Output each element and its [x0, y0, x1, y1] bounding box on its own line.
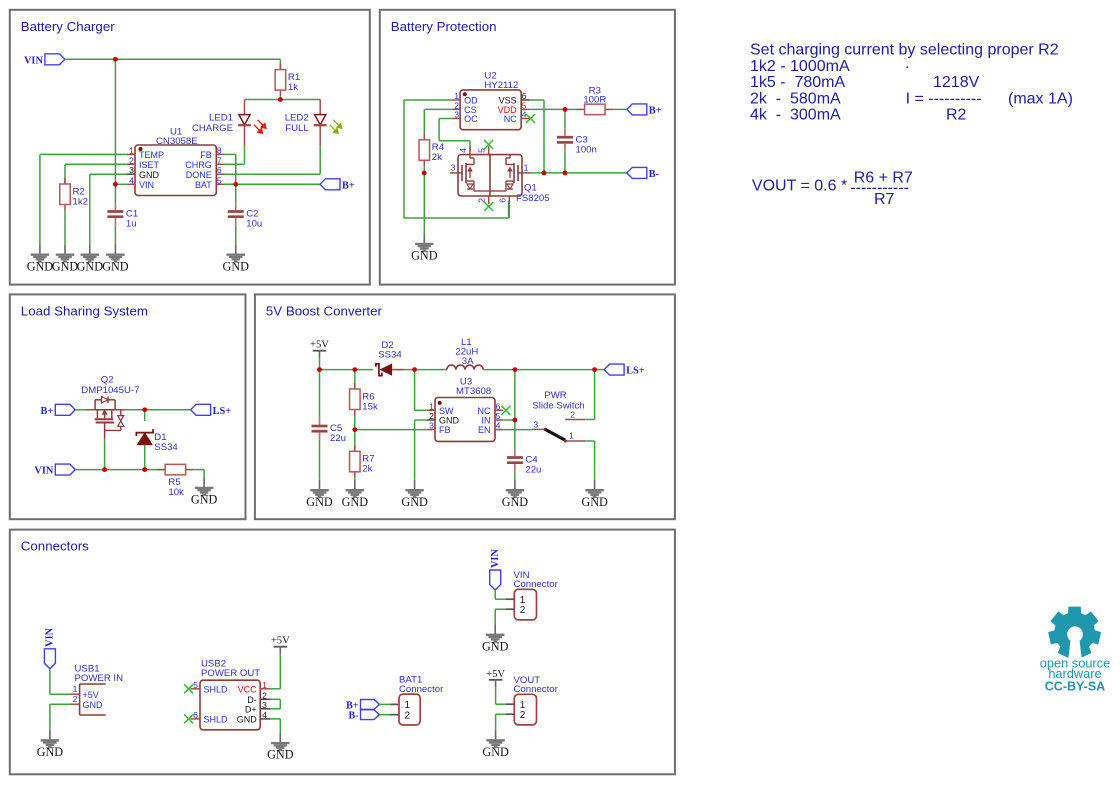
- wire Q1 pin6 down: [508, 204, 510, 218]
- svg-text:Connector: Connector: [514, 579, 559, 590]
- wire OD down: [403, 100, 405, 218]
- text note charging current table: [750, 42, 1073, 124]
- ground GND (battery protection): [411, 234, 438, 263]
- svg-text:GND: GND: [52, 259, 79, 273]
- svg-text:1: 1: [73, 684, 78, 694]
- junction VSS/B-: [542, 171, 547, 176]
- no-connect USB2 pin5: [184, 684, 193, 693]
- wire VSS right: [530, 99, 545, 101]
- wire CS to R4: [423, 109, 425, 139]
- svg-text:GND: GND: [342, 495, 369, 509]
- svg-text:Q2: Q2: [101, 375, 114, 386]
- svg-text:Battery Charger: Battery Charger: [21, 19, 115, 34]
- wire D- to D+: [279, 699, 281, 709]
- svg-text:ISET: ISET: [139, 160, 160, 170]
- svg-text:B-: B-: [349, 711, 359, 722]
- ground GND4: [102, 244, 129, 273]
- port B- (battery protection): [627, 167, 660, 180]
- svg-text:LED1: LED1: [209, 113, 233, 124]
- capacitor C3: [557, 129, 597, 156]
- svg-text:4: 4: [458, 148, 468, 153]
- wire R7 top: [354, 430, 356, 452]
- wire Q2 gate down: [104, 439, 106, 470]
- svg-text:6: 6: [193, 710, 198, 720]
- svg-text:22u: 22u: [525, 465, 541, 476]
- svg-text:B+: B+: [649, 105, 662, 116]
- port VIN (load sharing): [34, 464, 75, 477]
- capacitor C5: [312, 418, 347, 445]
- wire to GND (protection): [423, 173, 425, 234]
- ground GND (VIN connector): [482, 624, 509, 653]
- svg-text:HY2112: HY2112: [484, 80, 518, 91]
- svg-text:BAT: BAT: [195, 180, 212, 190]
- resistor R4: [419, 134, 445, 167]
- wire VSS down: [543, 100, 545, 173]
- sheet block Load Sharing System: [10, 294, 246, 519]
- svg-text:+5V: +5V: [486, 669, 505, 680]
- wire switch pin1 down: [594, 441, 596, 480]
- wire VCC: [271, 688, 281, 690]
- svg-text:R2: R2: [946, 107, 967, 124]
- wire LED1 cathode to CHRG: [244, 146, 246, 164]
- svg-text:GND: GND: [439, 416, 460, 426]
- svg-text:B+: B+: [342, 180, 355, 191]
- connector J VOUT: [506, 675, 559, 725]
- svg-text:7: 7: [217, 155, 222, 165]
- svg-text:CC-BY-SA: CC-BY-SA: [1045, 680, 1105, 694]
- junction switch branch: [592, 367, 597, 372]
- connector J VIN: [506, 570, 559, 620]
- wire B- rail: [530, 172, 627, 174]
- port VIN (USB1): [44, 627, 55, 668]
- svg-text:+5V: +5V: [310, 340, 329, 351]
- junction R4/Q1/GND: [422, 171, 427, 176]
- svg-text:GND: GND: [581, 495, 608, 509]
- port LS+ (boost): [604, 364, 645, 377]
- wire B+ to BAT1: [380, 703, 390, 705]
- wire OC: [439, 118, 452, 120]
- wire VIN conn pin1: [495, 598, 506, 600]
- port B+ (battery charger): [320, 179, 355, 192]
- transistor Q1 FS8205 (dual MOSFET): [450, 146, 550, 204]
- resistor R6: [350, 383, 378, 416]
- svg-text:4k - 300mA: 4k - 300mA: [750, 107, 841, 124]
- logo OSHW gear: [1049, 607, 1100, 657]
- sheet block Battery Protection: [380, 10, 675, 285]
- svg-text:LED2: LED2: [285, 113, 309, 124]
- LED LED2 FULL: [285, 100, 342, 147]
- svg-text:LS+: LS+: [626, 366, 645, 377]
- svg-text:VIN: VIN: [24, 55, 43, 66]
- svg-text:LS+: LS+: [213, 406, 232, 417]
- sheet block Connectors: [10, 530, 675, 775]
- junction R1/LED rail: [278, 97, 283, 102]
- svg-text:GND: GND: [191, 493, 218, 507]
- svg-text:IN: IN: [482, 416, 491, 426]
- svg-text:SHLD: SHLD: [204, 715, 229, 725]
- svg-text:3: 3: [129, 165, 134, 175]
- wire R6 bottom: [354, 416, 356, 430]
- capacitor C2: [228, 203, 263, 230]
- junction D1/LS+: [142, 407, 147, 412]
- wire VDD: [530, 108, 566, 110]
- svg-text:R7: R7: [874, 191, 895, 208]
- svg-text:6: 6: [217, 165, 222, 175]
- svg-text:GND: GND: [411, 249, 438, 263]
- ground GND5: [223, 244, 250, 273]
- svg-text:1: 1: [524, 163, 529, 173]
- svg-text:4: 4: [129, 175, 134, 185]
- svg-text:Battery Protection: Battery Protection: [391, 19, 497, 34]
- svg-text:2: 2: [129, 155, 134, 165]
- svg-text:GND: GND: [139, 170, 160, 180]
- resistor R1: [275, 64, 300, 97]
- svg-text:VIN: VIN: [490, 549, 501, 568]
- wire D-: [271, 698, 281, 700]
- power +5V (USB2): [271, 636, 290, 655]
- resistor R3: [577, 85, 614, 114]
- svg-text:DMP1045U-7: DMP1045U-7: [81, 385, 139, 396]
- wire switch pin2: [585, 419, 594, 421]
- svg-text:CN3058E: CN3058E: [156, 136, 198, 147]
- wire D1 bottom: [144, 445, 146, 470]
- svg-text:Slide Switch: Slide Switch: [532, 400, 584, 411]
- no-connect Q1 pin5: [484, 140, 493, 149]
- svg-text:6: 6: [497, 198, 507, 203]
- svg-text:1: 1: [262, 680, 267, 690]
- wire down to GND (load sharing): [203, 470, 205, 478]
- ground GND (load sharing): [191, 478, 218, 507]
- transistor Q2 DMP1045U-7 (P-MOSFET): [81, 375, 139, 439]
- svg-text:GND: GND: [267, 748, 294, 762]
- svg-text:Connector: Connector: [399, 684, 444, 695]
- svg-text:DONE: DONE: [186, 170, 212, 180]
- wire VIN conn down: [494, 590, 496, 599]
- svg-text:I = ----------: I = ----------: [906, 90, 982, 107]
- sheet block 5V Boost Converter: [255, 294, 675, 519]
- svg-text:VIN: VIN: [45, 627, 56, 646]
- svg-text:5: 5: [193, 680, 198, 690]
- wire C3 bottom: [564, 151, 566, 173]
- wire USB2 GND down: [279, 719, 281, 733]
- wire VOUT pin2: [496, 713, 506, 715]
- svg-text:+5V: +5V: [271, 636, 290, 647]
- svg-text:GND: GND: [237, 715, 258, 725]
- wire C1 top: [114, 184, 116, 203]
- wire R4 bottom: [423, 166, 425, 173]
- wire switch pin2 up: [594, 370, 596, 420]
- no-connect U2 NC: [526, 114, 535, 123]
- capacitor C1: [107, 203, 138, 230]
- wire B+ to Q2: [75, 409, 86, 411]
- svg-text:1: 1: [429, 401, 434, 411]
- svg-text:NC: NC: [504, 114, 517, 124]
- svg-text:VIN: VIN: [139, 180, 154, 190]
- junction R6 top: [352, 367, 357, 372]
- svg-text:10k: 10k: [168, 487, 184, 498]
- ground GND (U3): [401, 480, 428, 509]
- wire OD: [404, 99, 452, 101]
- wire TEMP: [40, 153, 127, 155]
- switch SW1 PWR slide switch: [532, 390, 585, 443]
- diode D1 SS34: [136, 429, 178, 453]
- svg-text:SS34: SS34: [378, 350, 402, 361]
- svg-text:Connector: Connector: [514, 684, 559, 695]
- port B+ (battery protection): [627, 104, 662, 117]
- wire CHRG to LED1: [225, 163, 245, 165]
- op-amp U1 CN3058E: [127, 127, 225, 196]
- svg-text:GND: GND: [37, 745, 64, 759]
- wire VIN conn GND down: [494, 609, 496, 624]
- svg-text:3: 3: [262, 700, 267, 710]
- svg-text:hardware: hardware: [1048, 666, 1101, 681]
- svg-text:1218V: 1218V: [933, 74, 980, 91]
- svg-text:2: 2: [262, 690, 267, 700]
- svg-text:1: 1: [129, 145, 134, 155]
- svg-text:VOUT = 0.6 *: VOUT = 0.6 *: [752, 177, 852, 194]
- svg-text:100R: 100R: [583, 95, 606, 106]
- svg-text:GND: GND: [83, 700, 104, 710]
- wire to USB1 pin1: [50, 693, 70, 695]
- resistor R7: [350, 445, 375, 478]
- wire D1 top: [144, 410, 146, 421]
- svg-text:22u: 22u: [330, 433, 346, 444]
- connector USB1 POWER IN: [70, 664, 123, 716]
- svg-text:GND: GND: [482, 745, 509, 759]
- sheet block Battery Charger: [10, 10, 370, 285]
- svg-text:TEMP: TEMP: [139, 150, 164, 160]
- svg-text:1k2 - 1000mA: 1k2 - 1000mA: [750, 58, 850, 75]
- svg-text:(max 1A): (max 1A): [1008, 90, 1073, 107]
- wire C2 bottom: [235, 225, 237, 244]
- svg-text:CHRG: CHRG: [185, 160, 212, 170]
- port LS+ (load sharing): [191, 404, 232, 417]
- resistor R5: [157, 464, 194, 498]
- wire R6 top stub: [354, 370, 356, 389]
- wire +5V to VCC: [279, 654, 281, 689]
- wire C2 top: [235, 184, 237, 203]
- wire VIN conn pin2: [495, 608, 506, 610]
- svg-text:10u: 10u: [246, 219, 262, 230]
- wire R7 bottom: [354, 478, 356, 480]
- wire D2 to L1: [404, 369, 447, 371]
- wire C1 bottom: [114, 225, 116, 244]
- wire BAT to B+: [225, 183, 320, 185]
- svg-text:GND: GND: [223, 259, 250, 273]
- svg-text:GND: GND: [401, 495, 428, 509]
- wire VOUT pin1: [496, 703, 506, 705]
- port B- (BAT1): [349, 710, 380, 722]
- wire rail to D2: [320, 369, 373, 371]
- svg-text:EN: EN: [478, 425, 491, 435]
- svg-text:POWER OUT: POWER OUT: [201, 668, 260, 679]
- wire USB1 GND down: [49, 704, 51, 730]
- no-connect Q1 pin2: [484, 202, 493, 211]
- ground GND (USB2): [267, 733, 294, 762]
- junction VDD/C3: [563, 107, 568, 112]
- svg-text:1k2: 1k2: [73, 196, 88, 207]
- port B+ (load sharing): [41, 404, 76, 417]
- svg-text:SS34: SS34: [154, 442, 178, 453]
- svg-text:OC: OC: [464, 114, 478, 124]
- wire D+: [271, 708, 281, 710]
- svg-text:GND: GND: [102, 259, 129, 273]
- no-connect U3 NC: [502, 406, 511, 415]
- svg-text:2: 2: [520, 710, 526, 721]
- wire EN to switch: [503, 429, 532, 431]
- port VIN (battery charger): [24, 54, 65, 67]
- logo OSHW text: [1040, 655, 1110, 693]
- no-connect USB2 pin6: [184, 714, 193, 723]
- svg-text:3: 3: [429, 421, 434, 431]
- junction SW branch: [412, 367, 417, 372]
- svg-text:5: 5: [217, 175, 222, 185]
- wire IN: [503, 419, 515, 421]
- power +5V (boost): [310, 340, 329, 359]
- svg-text:2: 2: [73, 694, 78, 704]
- wire VIN rail (load sharing): [75, 469, 165, 471]
- svg-text:POWER IN: POWER IN: [75, 673, 124, 684]
- svg-text:100n: 100n: [576, 144, 597, 155]
- wire R5 right: [194, 469, 204, 471]
- svg-text:Load Sharing System: Load Sharing System: [21, 303, 148, 318]
- ground GND (VOUT): [482, 730, 509, 759]
- wire LED anode rail: [245, 99, 321, 101]
- junction +5V/C5: [317, 367, 322, 372]
- ground GND1: [27, 244, 54, 273]
- junction BAT/C2: [233, 182, 238, 187]
- wire U3 GND down: [414, 420, 416, 480]
- ic U2 HY2112: [452, 70, 530, 129]
- svg-text:2k: 2k: [432, 152, 442, 163]
- wire R3 to B+: [613, 108, 627, 110]
- svg-text:3A: 3A: [462, 356, 474, 367]
- svg-text:5: 5: [496, 411, 501, 421]
- wire R2 to GND: [64, 211, 66, 245]
- wire U1 GND down: [89, 174, 91, 244]
- wire ISET: [65, 163, 127, 165]
- svg-text:PWR: PWR: [544, 390, 566, 401]
- svg-text:1u: 1u: [126, 219, 137, 230]
- wire Q2 to LS+: [125, 409, 191, 411]
- wire C4 bottom: [514, 471, 516, 480]
- wire +5V down: [319, 358, 321, 369]
- svg-text:3: 3: [454, 110, 459, 120]
- svg-text:SHLD: SHLD: [204, 685, 229, 695]
- power +5V (VOUT): [486, 669, 505, 688]
- wire FB stub: [225, 153, 236, 155]
- ic U3 MT3608: [427, 377, 504, 442]
- connector BAT1: [390, 675, 444, 725]
- LED LED1 CHARGE: [192, 100, 266, 147]
- svg-text:2k - 580mA: 2k - 580mA: [750, 90, 841, 107]
- ground GND (R7): [342, 480, 369, 509]
- svg-text:MT3608: MT3608: [456, 386, 491, 397]
- svg-text:8: 8: [217, 145, 222, 155]
- ground GND (C5): [306, 480, 333, 509]
- wire switch pin1: [585, 440, 594, 442]
- wire OC down: [438, 119, 440, 141]
- wire VOUT GND down: [495, 714, 497, 730]
- wire U3 GND: [415, 419, 427, 421]
- svg-text:D+: D+: [245, 705, 257, 715]
- svg-text:VIN: VIN: [34, 466, 53, 477]
- svg-text:15k: 15k: [362, 401, 378, 412]
- svg-text:.: .: [905, 55, 909, 72]
- ground GND (switch): [581, 480, 608, 509]
- svg-text:Connectors: Connectors: [21, 539, 89, 554]
- wire VIN rail: [65, 58, 281, 60]
- wire B- to BAT1: [380, 714, 390, 716]
- svg-text:FB: FB: [200, 150, 212, 160]
- svg-text:SW: SW: [439, 406, 454, 416]
- wire SW: [415, 409, 427, 411]
- wire CS: [424, 108, 452, 110]
- svg-text:5V Boost Converter: 5V Boost Converter: [266, 303, 383, 318]
- diode D2 SS34: [376, 340, 404, 376]
- text note VOUT formula: [752, 170, 913, 208]
- svg-text:CHARGE: CHARGE: [192, 123, 233, 134]
- wire L1 to LS+: [483, 369, 604, 371]
- ground GND (C4): [502, 480, 529, 509]
- wire C3 top: [564, 109, 566, 128]
- wire USB2 GND: [271, 718, 281, 720]
- svg-text:2: 2: [429, 411, 434, 421]
- ground GND3: [77, 244, 104, 273]
- wire C4 top: [514, 420, 516, 449]
- wire up to Q1 pin6: [508, 201, 510, 219]
- junction VIN/R branch: [113, 57, 118, 62]
- wire VDD to R3: [565, 108, 577, 110]
- inductor L1 22uH 3A: [447, 337, 483, 370]
- svg-text:2: 2: [520, 605, 526, 616]
- wire USB1 pin2: [50, 703, 70, 705]
- wire DONE to LED2: [225, 173, 321, 175]
- wire SW up: [414, 370, 416, 411]
- svg-text:3: 3: [533, 419, 538, 429]
- svg-text:D-: D-: [247, 695, 257, 705]
- junction IN branch: [513, 367, 518, 372]
- wire OC to Q1 pin4: [469, 141, 471, 151]
- junction C3/B-: [563, 171, 568, 176]
- svg-text:+5V: +5V: [83, 690, 99, 700]
- wire C5 bottom: [319, 440, 321, 480]
- junction IN/C4: [513, 418, 518, 423]
- svg-text:FS8205: FS8205: [516, 193, 550, 204]
- wire OC right: [439, 140, 470, 142]
- wire C5 top: [319, 370, 321, 418]
- wire LED2 cathode to DONE: [319, 146, 321, 174]
- svg-text:VCC: VCC: [238, 685, 258, 695]
- wire VIN down to U1 pin4: [114, 59, 116, 184]
- svg-text:NC: NC: [478, 406, 491, 416]
- svg-text:B-: B-: [649, 169, 660, 180]
- wire TEMP to GND: [39, 154, 41, 244]
- svg-text:GND: GND: [502, 495, 529, 509]
- port VIN (VIN connector): [490, 549, 501, 590]
- wire R1 bottom stub: [279, 96, 281, 99]
- svg-text:B+: B+: [41, 406, 54, 417]
- wire IN up: [514, 370, 516, 420]
- wire ISET to R2: [64, 164, 66, 184]
- port B+ (BAT1): [346, 700, 379, 712]
- wire FB to BAT: [235, 154, 237, 184]
- resistor R2: [60, 178, 88, 211]
- svg-text:FULL: FULL: [285, 123, 309, 134]
- wire +5V down (VOUT): [495, 687, 497, 704]
- svg-text:1k: 1k: [288, 82, 298, 93]
- ground GND (USB1): [37, 730, 64, 759]
